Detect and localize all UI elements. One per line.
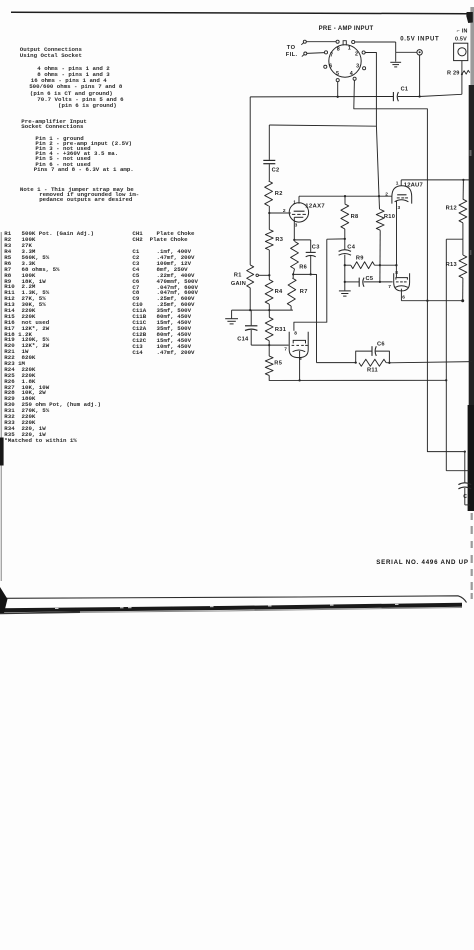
svg-text:3: 3 <box>295 223 298 229</box>
svg-text:C2: C2 <box>272 168 280 174</box>
svg-text:7: 7 <box>388 284 391 290</box>
svg-text:6: 6 <box>299 356 302 362</box>
svg-text:2: 2 <box>355 52 358 58</box>
svg-text:C: C <box>463 494 467 500</box>
svg-text:2: 2 <box>385 191 388 197</box>
svg-text:C5: C5 <box>366 276 374 282</box>
svg-text:R1: R1 <box>234 272 242 278</box>
svg-text:12AU7: 12AU7 <box>404 182 424 188</box>
svg-text:12AX7: 12AX7 <box>305 203 325 209</box>
svg-text:R12: R12 <box>446 206 457 212</box>
svg-text:R3: R3 <box>275 237 283 243</box>
svg-text:R13: R13 <box>446 262 457 268</box>
svg-text:R11: R11 <box>367 368 378 374</box>
svg-text:C6: C6 <box>377 342 385 348</box>
svg-text:6: 6 <box>402 295 405 301</box>
svg-text:6: 6 <box>329 63 332 69</box>
svg-text:C1: C1 <box>401 87 409 93</box>
svg-text:2: 2 <box>283 208 286 214</box>
svg-text:R10: R10 <box>384 214 395 220</box>
svg-text:R6: R6 <box>299 264 307 270</box>
svg-text:FIL.: FIL. <box>286 52 298 58</box>
svg-text:TO: TO <box>287 45 296 51</box>
svg-text:R8: R8 <box>351 214 359 220</box>
svg-text:GAIN: GAIN <box>231 281 246 287</box>
svg-text:PRE - AMP INPUT: PRE - AMP INPUT <box>319 26 374 32</box>
svg-text:C3: C3 <box>312 244 320 250</box>
svg-text:R7: R7 <box>300 289 308 295</box>
svg-text:5: 5 <box>336 71 339 77</box>
svg-text:0.5V: 0.5V <box>455 36 467 42</box>
svg-text:8: 8 <box>294 330 297 336</box>
svg-text:SERIAL NO. 4496 AND UP: SERIAL NO. 4496 AND UP <box>376 559 469 566</box>
svg-text:R2: R2 <box>275 191 283 197</box>
svg-text:7: 7 <box>284 346 287 352</box>
svg-text:1: 1 <box>396 180 399 186</box>
svg-text:C4: C4 <box>347 244 355 250</box>
svg-text:8: 8 <box>337 46 340 52</box>
svg-text:⌐ IN: ⌐ IN <box>457 28 468 34</box>
svg-text:3: 3 <box>398 205 401 211</box>
svg-text:1: 1 <box>293 199 296 205</box>
svg-text:8: 8 <box>395 270 398 276</box>
svg-text:C14: C14 <box>237 336 249 342</box>
svg-text:R4: R4 <box>275 289 283 295</box>
svg-text:7: 7 <box>330 52 333 58</box>
svg-text:1: 1 <box>348 46 351 52</box>
svg-text:R5: R5 <box>274 361 282 367</box>
svg-text:R31: R31 <box>275 327 286 333</box>
svg-text:3: 3 <box>356 63 359 69</box>
svg-text:R9: R9 <box>356 256 364 262</box>
svg-text:R 29: R 29 <box>447 70 460 76</box>
svg-text:4: 4 <box>350 71 353 77</box>
svg-text:0.5V INPUT: 0.5V INPUT <box>400 37 439 43</box>
